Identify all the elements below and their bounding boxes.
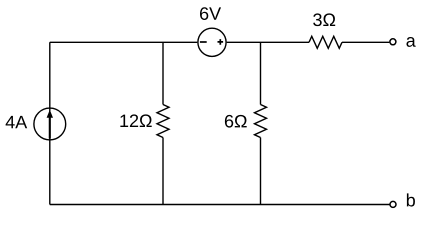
wire: top horizontal segment from 6V source to 3-ohm resistor bbox=[227, 41, 309, 43]
wire: right branch upper lead of 6-ohm resistor bbox=[260, 42, 262, 104]
node label a bbox=[406, 37, 415, 47]
resistor 12-ohm (vertical zigzag) bbox=[157, 105, 169, 138]
wire: bottom horizontal segment to terminal b bbox=[50, 204, 390, 206]
resistor 6-ohm (vertical zigzag) bbox=[255, 105, 267, 138]
wire: middle branch upper lead of 12-ohm resistor bbox=[162, 42, 164, 104]
terminal b (open circle) bbox=[390, 201, 396, 207]
value label 3-ohm bbox=[313, 13, 335, 26]
value label 12-ohm bbox=[120, 114, 151, 127]
value label 4A bbox=[6, 116, 28, 128]
resistor 3-ohm (horizontal zigzag) bbox=[309, 36, 342, 48]
node label b bbox=[407, 193, 415, 206]
current source 4A (circle with upward arrow) bbox=[34, 108, 66, 140]
value label 6-ohm bbox=[225, 115, 247, 128]
wire: top horizontal segment from 3-ohm resistor to terminal a bbox=[342, 41, 389, 43]
terminal a (open circle) bbox=[390, 39, 396, 45]
wire: middle branch lower lead of 12-ohm resistor bbox=[162, 138, 164, 205]
wire: left vertical branch through current source bbox=[49, 42, 51, 204]
voltage source 6V (circle with minus and plus signs) bbox=[198, 28, 226, 56]
wire: top-left horizontal segment from left branch to 6V source bbox=[50, 41, 198, 43]
value label 6V bbox=[200, 7, 221, 20]
wire: right branch lower lead of 6-ohm resistor bbox=[260, 138, 262, 205]
